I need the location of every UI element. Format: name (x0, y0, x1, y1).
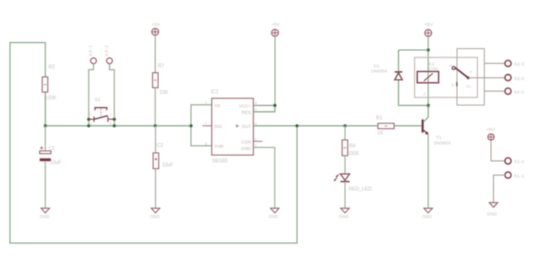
resistor R2 (42, 64, 57, 101)
wire junction to R4 (344, 126, 346, 140)
wire contact P to pad X2-2 (468, 77, 505, 79)
wire R4 to LED (344, 156, 346, 174)
svg-text:X1-2: X1-2 (514, 159, 525, 164)
svg-text:NE555: NE555 (212, 159, 228, 165)
svg-text:GND: GND (422, 214, 432, 219)
wire +5V through relay coil to collector (427, 36, 429, 105)
wire TR/THR bracket (191, 105, 212, 146)
wire RES pin 4 (253, 105, 275, 111)
svg-text:100K: 100K (45, 95, 57, 101)
wire LED to ground (344, 182, 346, 208)
svg-text:4: 4 (255, 108, 257, 112)
svg-text:X2-2: X2-2 (514, 76, 525, 81)
svg-text:10uF: 10uF (50, 160, 61, 166)
svg-text:P: P (470, 69, 473, 74)
pin DIS stub pin 7 (202, 125, 211, 127)
svg-text:T1: T1 (436, 135, 442, 141)
wire emitter to ground (427, 135, 429, 208)
svg-text:O: O (449, 63, 452, 68)
svg-text:2: 2 (424, 92, 426, 96)
node VCC junction (273, 104, 276, 107)
wire C1 to ground (44, 161, 46, 208)
wire OUT pin 3 (253, 125, 422, 127)
wire diode branch top (399, 49, 429, 51)
svg-text:R4: R4 (349, 143, 356, 149)
node diode bottom junction (427, 104, 430, 107)
pad X2-3 (505, 60, 525, 66)
ground GND (X1) (487, 203, 498, 217)
svg-text:+5V: +5V (152, 22, 161, 28)
svg-text:C1: C1 (49, 146, 56, 152)
wire +5V to R7 (154, 35, 156, 73)
svg-text:8: 8 (255, 101, 257, 105)
node diode top junction (427, 48, 430, 51)
ground GND (C2) (150, 208, 160, 219)
svg-text:4: 4 (110, 122, 112, 126)
wire pad X1-1 to ground (494, 175, 505, 203)
svg-text:R7: R7 (158, 64, 165, 70)
svg-text:GND: GND (150, 214, 160, 219)
svg-text:GND: GND (269, 214, 279, 219)
svg-text:CON: CON (241, 139, 251, 144)
svg-text:+5V: +5V (424, 22, 433, 28)
wire R7 to bus (154, 88, 156, 126)
svg-text:+5V: +5V (486, 127, 495, 133)
svg-text:R1: R1 (376, 116, 383, 122)
supply +5V (relay) (424, 22, 433, 36)
svg-text:K1: K1 (467, 85, 471, 89)
supply +5V (R7) (152, 22, 161, 35)
node switch right bus (113, 124, 116, 127)
svg-text:GND: GND (241, 146, 252, 151)
node OUT/LED junction (343, 124, 346, 127)
svg-text:10uF: 10uF (162, 163, 173, 169)
pad X1-2 (505, 158, 525, 164)
pad X3-2 (104, 45, 113, 64)
pad X2-2 (505, 75, 525, 81)
wire contact S to pad X2-1 (484, 90, 505, 92)
svg-text:+5V: +5V (271, 22, 280, 28)
svg-text:X2-3: X2-3 (514, 62, 525, 67)
pad X1-1 (505, 172, 525, 178)
svg-text:GND: GND (487, 212, 497, 217)
svg-text:7: 7 (205, 122, 207, 126)
wire diode branch bottom (399, 104, 429, 106)
svg-text:X1-1: X1-1 (514, 173, 525, 178)
wire bus to C1 (44, 126, 46, 151)
svg-text:THR: THR (214, 144, 224, 149)
svg-text:RES: RES (242, 110, 251, 115)
resistor R7 (153, 64, 169, 97)
LED RED_LED (334, 174, 372, 192)
node switch left upper (87, 118, 90, 121)
svg-text:IC1: IC1 (211, 89, 219, 95)
pad X2-1 (505, 88, 525, 94)
relay contact K1 (449, 49, 484, 106)
wire GND pin 1 to ground (253, 147, 274, 208)
svg-text:1N4004: 1N4004 (371, 68, 388, 73)
wire C2 to ground (155, 169, 157, 209)
svg-text:X2-1: X2-1 (514, 90, 525, 95)
wire pad X3-2 to switch (110, 64, 115, 126)
svg-text:DIS: DIS (214, 124, 222, 129)
svg-text:2: 2 (205, 101, 207, 105)
node R2/bus junction (44, 124, 47, 127)
svg-text:1K: 1K (377, 131, 384, 137)
timer IC1 NE555 (205, 89, 257, 164)
pad X3-1 (88, 45, 97, 64)
svg-text:330E: 330E (348, 151, 360, 157)
wire contact O to pad X2-3 (484, 62, 505, 64)
relay housing box K1 (415, 57, 478, 97)
wire feedback loop OUT to R2 (10, 43, 297, 244)
svg-text:C2: C2 (157, 143, 164, 149)
pin CON stub pin 5 (253, 140, 262, 142)
svg-text:6: 6 (205, 142, 207, 146)
svg-text:TR: TR (214, 103, 221, 108)
capacitor C1 (40, 146, 62, 166)
svg-text:3: 3 (255, 122, 257, 126)
svg-text:5: 5 (255, 137, 257, 141)
resistor R4 (342, 140, 360, 157)
supply +5V (IC1) (271, 22, 280, 36)
relay coil K1 (417, 62, 439, 96)
wire diode vertical (398, 50, 400, 105)
svg-text:1: 1 (90, 113, 92, 117)
node switch left bus (87, 124, 90, 127)
svg-text:X3-2: X3-2 (104, 45, 109, 57)
wire R2 bottom to bus (44, 92, 46, 126)
resistor R1 (376, 116, 394, 137)
ground GND (LED) (339, 208, 349, 219)
svg-text:RED_LED: RED_LED (349, 186, 372, 192)
capacitor C2 (153, 143, 173, 169)
svg-text:GND: GND (339, 214, 349, 219)
node R7/bus junction (154, 124, 157, 127)
svg-text:X3-1: X3-1 (88, 45, 93, 57)
node OUT/loop junction (295, 124, 298, 127)
wire main bus TR/THR node (45, 125, 191, 127)
svg-text:3: 3 (90, 122, 92, 126)
ground GND (IC1) (269, 208, 280, 219)
node bracket/bus junction (189, 124, 192, 127)
svg-text:COIL: COIL (429, 66, 440, 71)
svg-text:OUT: OUT (242, 124, 252, 129)
wire pad X3-1 to switch (89, 64, 94, 126)
supply +5V (X1) (486, 127, 495, 140)
svg-text:S: S (451, 83, 454, 88)
ground GND (C1) (40, 208, 50, 219)
svg-text:VCC+: VCC+ (239, 103, 252, 108)
svg-text:10K: 10K (159, 90, 169, 96)
svg-text:R2: R2 (49, 64, 56, 70)
wire +5V to pad X1-2 (491, 140, 505, 161)
svg-text:2: 2 (110, 113, 112, 117)
svg-text:2N3904: 2N3904 (434, 140, 451, 146)
ground GND (T1) (422, 208, 432, 219)
svg-text:GND: GND (40, 214, 50, 219)
diode D1 (371, 63, 403, 79)
wire bus to C2 (155, 126, 157, 153)
wire VCC pin 8 (253, 104, 275, 106)
node switch right upper (113, 118, 116, 121)
svg-text:S1: S1 (95, 97, 101, 102)
wire +5V to VCC (274, 36, 276, 105)
switch S1 (89, 97, 115, 126)
transistor T1 2N3904 (422, 105, 451, 146)
